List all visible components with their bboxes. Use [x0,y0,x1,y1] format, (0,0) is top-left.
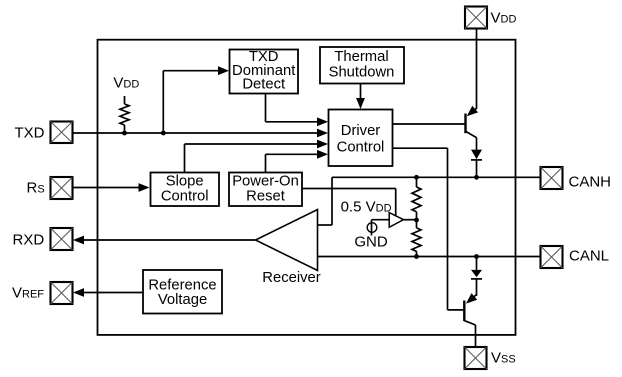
svg-text:TXD: TXD [15,125,45,142]
svg-text:VSS: VSS [491,350,516,367]
svg-text:RS: RS [27,180,45,197]
svg-text:Power-On: Power-On [232,173,299,189]
svg-text:Reference: Reference [148,278,216,294]
svg-text:Shutdown: Shutdown [329,65,395,81]
svg-text:GND: GND [354,234,388,251]
svg-text:Voltage: Voltage [158,292,207,308]
svg-text:0.5 VDD: 0.5 VDD [341,199,392,216]
svg-text:Driver: Driver [341,123,381,139]
svg-text:Control: Control [161,189,209,205]
svg-text:CANH: CANH [569,173,612,190]
svg-text:Detect: Detect [242,76,285,92]
svg-text:VREF: VREF [12,285,44,302]
svg-text:RXD: RXD [13,232,45,249]
svg-text:Control: Control [337,140,385,156]
svg-text:Thermal: Thermal [334,49,388,65]
svg-text:Slope: Slope [166,173,204,189]
svg-text:Reset: Reset [246,189,285,205]
svg-text:VDD: VDD [113,75,139,92]
svg-text:Receiver: Receiver [262,270,320,286]
svg-text:VDD: VDD [491,10,517,27]
svg-text:CANL: CANL [569,248,609,265]
